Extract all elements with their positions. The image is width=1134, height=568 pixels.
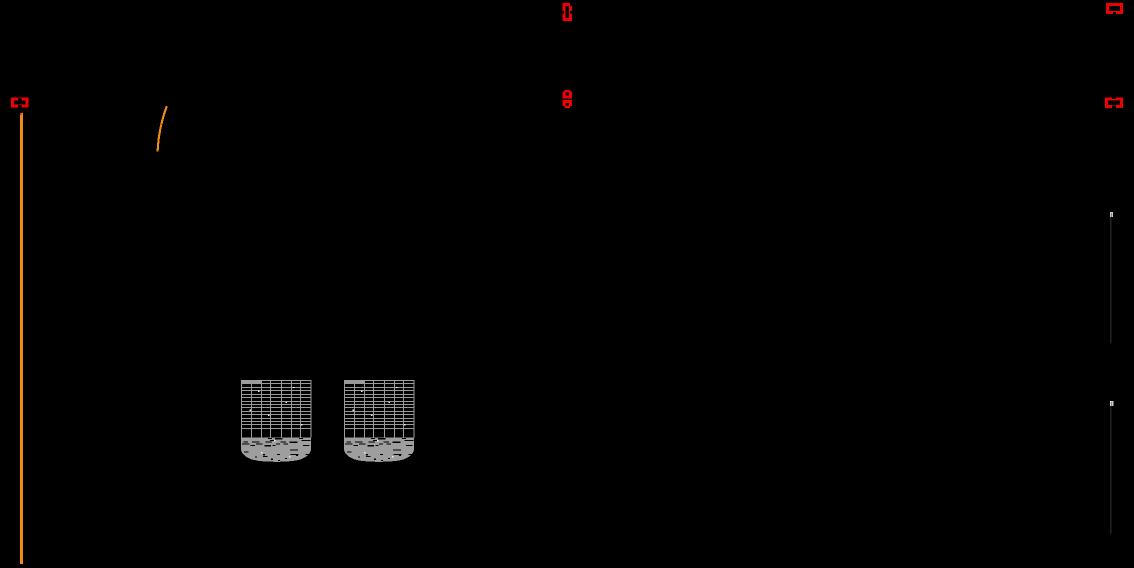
marker P5 (right box) <box>1107 96 1122 108</box>
node R1 top marker <box>1110 212 1113 217</box>
node R2 top marker <box>1110 401 1114 406</box>
marker P3 (mid-center vertical box) <box>562 89 573 108</box>
wire: faint vertical line R1 <box>1110 217 1112 344</box>
marker P2 (top-center vertical box) <box>562 3 573 20</box>
wire: orange vertical line L1 <box>20 113 21 564</box>
wire: faint vertical line R2 <box>1110 406 1112 534</box>
marker P4 (top-right box) <box>1107 4 1121 14</box>
mesh cup M1 (left) <box>241 380 311 462</box>
mesh cup M2 (right) <box>344 380 414 462</box>
marker P1 (left anchor box) <box>13 98 28 108</box>
wire: orange curve L2 <box>158 106 167 151</box>
